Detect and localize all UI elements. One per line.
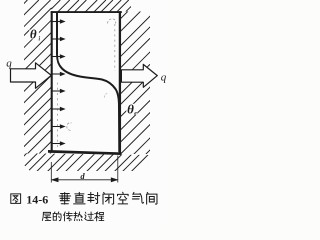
flux arrow 6 (53, 108, 65, 111)
caption line 1: 图 14-6 (11, 194, 21, 204)
svg-text:q: q (161, 72, 167, 84)
svg-text:θ: θ (30, 27, 37, 42)
cavity bottom line (48, 151, 122, 153)
temperature curve (57, 12, 119, 152)
circulation curl top-right (108, 19, 116, 24)
q arrow left (hollow) (11, 63, 52, 89)
left wall line (51, 11, 53, 151)
dimension extension line left (50, 162, 52, 183)
flux arrow 2 (53, 38, 65, 41)
svg-text:e: e (134, 111, 137, 117)
flux arrow 3 (53, 55, 65, 58)
faint curl mid-right (105, 94, 109, 98)
circulation curl bottom-left (67, 123, 72, 131)
circulation dashes left wall (56, 80, 58, 147)
right wall line (119, 11, 121, 154)
flux arrow 4 (53, 73, 65, 76)
flux arrow 1 (53, 20, 65, 23)
wall hatching bottom band (5, 0, 320, 175)
flux arrow 5 (53, 90, 65, 93)
svg-text:14-6: 14-6 (26, 192, 48, 206)
wall hatching top band (0, 0, 148, 175)
wall hatching right band (0, 0, 300, 175)
cavity top line (51, 11, 122, 13)
svg-text:q: q (6, 57, 12, 69)
dimension extension line right (117, 156, 119, 183)
label theta_e (126, 104, 137, 115)
air cavity (white) (52, 12, 122, 154)
margin mask top-right corner (131, 0, 168, 12)
circulation dashes right wall (114, 24, 116, 71)
q arrow right (hollow) (121, 64, 157, 87)
svg-text:θ: θ (127, 102, 134, 117)
caption line 1: 垂直封闭空气间 (59, 193, 70, 205)
flux arrow 8 (53, 142, 65, 145)
caption line 2: 层的传热过程 (42, 212, 51, 220)
svg-text:d: d (80, 171, 85, 181)
label theta_i (29, 30, 39, 40)
wall hatching left band (0, 0, 204, 175)
dimension line d (52, 178, 117, 182)
flux arrow 7 (53, 125, 65, 128)
